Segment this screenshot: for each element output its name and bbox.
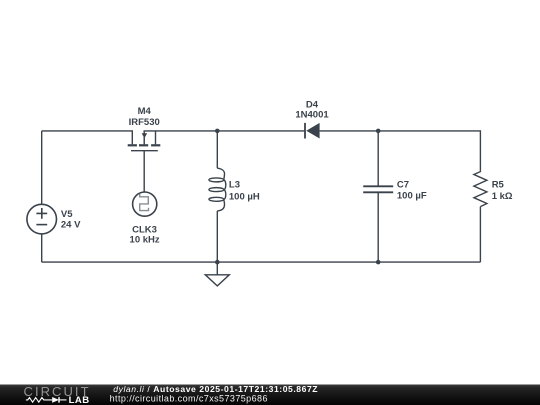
svg-text:http://circuitlab.com/c7xs5737: http://circuitlab.com/c7xs57375p686 [110,394,268,404]
svg-text:24 V: 24 V [61,220,81,231]
svg-text:LAB: LAB [69,395,90,405]
svg-text:1 kΩ: 1 kΩ [492,191,513,202]
svg-text:L3: L3 [229,180,240,191]
svg-text:IRF530: IRF530 [129,117,160,128]
svg-text:dylan.li / Autosave 2025-01-17: dylan.li / Autosave 2025-01-17T21:31:05.… [113,384,318,394]
svg-text:100 µF: 100 µF [397,191,427,202]
svg-text:R5: R5 [492,179,505,190]
svg-text:10 kHz: 10 kHz [130,235,160,246]
svg-text:1N4001: 1N4001 [295,110,329,121]
svg-text:100 µH: 100 µH [229,192,260,203]
svg-text:V5: V5 [61,209,73,220]
svg-text:C7: C7 [397,180,409,191]
svg-text:M4: M4 [138,106,152,117]
